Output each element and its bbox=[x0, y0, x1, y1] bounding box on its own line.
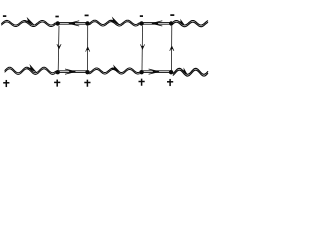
label: plus below bottom vertex 2 bbox=[84, 82, 90, 84]
wire: top-middle wavy segment bbox=[89, 16, 139, 26]
wire: vertical line 2 (arrow up) bbox=[86, 26, 90, 70]
node: bottom vertex 2 bbox=[85, 70, 89, 74]
wire: bottom-right wavy segment bbox=[173, 68, 208, 77]
wire: vertical line 4 (arrow up) bbox=[170, 26, 174, 70]
wire: top-left wavy segment bbox=[1, 17, 55, 27]
label: minus above vertex 4 bbox=[170, 14, 174, 16]
node: top vertex 3 bbox=[139, 21, 143, 25]
wire: bottom-left wavy segment bbox=[5, 64, 56, 74]
label: plus below bottom vertex 4 bbox=[167, 81, 173, 83]
wire: top straight segment 1 (arrow left) bbox=[58, 21, 88, 26]
label: plus at bottom-left end bbox=[3, 82, 9, 84]
wire: vertical line 3 (arrow down) bbox=[140, 26, 144, 70]
label: minus above vertex 1 bbox=[55, 16, 58, 18]
wire: bottom straight segment 1 (arrow right) bbox=[58, 69, 88, 74]
node: top vertex 1 bbox=[56, 21, 60, 25]
node: top vertex 4 bbox=[169, 21, 173, 25]
node: top vertex 2 bbox=[85, 21, 89, 25]
label: plus below bottom vertex 3 bbox=[139, 81, 145, 83]
wire: top-right wavy segment bbox=[173, 19, 208, 27]
label: minus above vertex 2 bbox=[85, 15, 89, 17]
wire: vertical line 1 (arrow down) bbox=[57, 26, 61, 70]
label: minus above vertex 3 bbox=[140, 15, 143, 17]
label: plus below bottom vertex 1 bbox=[54, 82, 60, 84]
node: bottom vertex 1 bbox=[56, 70, 60, 74]
wire: top straight segment 2 (arrow left) bbox=[142, 21, 172, 26]
label: minus at top-left end bbox=[3, 15, 6, 17]
node: bottom vertex 4 bbox=[169, 70, 173, 74]
node: bottom vertex 3 bbox=[139, 70, 143, 74]
wire: bottom-middle wavy segment bbox=[89, 65, 139, 74]
wire: bottom straight segment 2 (arrow right) bbox=[142, 69, 172, 74]
